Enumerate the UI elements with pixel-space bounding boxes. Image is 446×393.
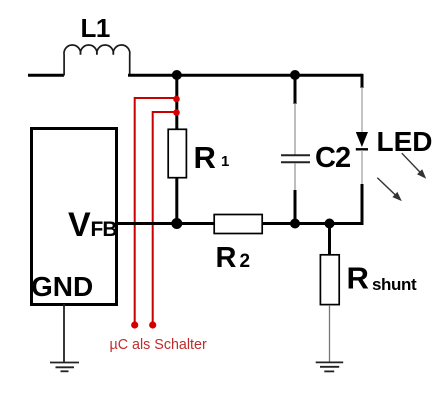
wire: bottom rail (R2 to LED branch) <box>262 222 362 225</box>
node: red dot on R1 top lead (line 1) <box>173 96 180 103</box>
inductor L1 <box>64 45 130 75</box>
wire: LED branch top stub <box>361 74 364 88</box>
wire: top rail right segment <box>128 74 362 77</box>
svg-text:1: 1 <box>221 153 229 170</box>
svg-text:R: R <box>216 242 237 274</box>
resistor Rshunt <box>320 255 339 305</box>
LED diode symbol <box>356 132 368 149</box>
svg-text:C2: C2 <box>315 142 350 174</box>
wire: C2 top thin lead <box>294 103 296 155</box>
node: junction dot top of C2 branch <box>290 70 300 80</box>
svg-text:µC als Schalter: µC als Schalter <box>110 337 207 353</box>
ground symbol left <box>50 363 79 372</box>
svg-text:FB: FB <box>91 218 118 241</box>
wire: VFB pin wire <box>116 222 214 225</box>
resistor R2 <box>214 215 262 234</box>
wire: R1 branch lower (R1 to VFB node) <box>175 178 178 224</box>
Rshunt label <box>347 261 418 296</box>
wire: µC switch line 1 (red) <box>135 98 176 325</box>
wire: LED anode thin lead <box>361 87 363 132</box>
svg-text:shunt: shunt <box>372 275 417 294</box>
node: red dot bottom of line 2 <box>149 321 156 328</box>
svg-text:R: R <box>347 261 369 296</box>
IC box (switching regulator) <box>32 129 117 305</box>
capacitor C2 <box>281 155 310 162</box>
wire: top rail left segment <box>28 74 64 77</box>
LED light arrow 1 <box>402 153 426 179</box>
svg-text:LED: LED <box>377 126 433 157</box>
svg-text:GND: GND <box>31 271 93 302</box>
svg-text:R: R <box>194 140 216 175</box>
wire: R1 branch upper (top rail to R1) <box>175 75 178 129</box>
resistor R1 <box>168 129 186 177</box>
ground symbol right <box>316 362 344 371</box>
R1 label <box>194 140 230 175</box>
node: red dot on R1 top lead (line 2) <box>173 109 180 116</box>
wire: LED cathode thin lead <box>361 150 363 185</box>
R2 label <box>216 242 251 274</box>
wire: Rshunt bottom thin lead <box>329 305 331 362</box>
wire: C2 bottom thin lead <box>294 163 296 191</box>
wire: C2 branch top stub <box>294 75 297 104</box>
wire: LED branch bottom stub <box>361 184 364 225</box>
wire: C2 branch bottom stub <box>294 190 297 224</box>
svg-text:V: V <box>68 206 91 244</box>
wire: GND pin lead <box>63 304 65 362</box>
LED light arrow 2 <box>377 178 402 201</box>
svg-text:L1: L1 <box>81 13 110 43</box>
wire: Rshunt top lead <box>328 224 331 256</box>
svg-text:2: 2 <box>240 251 251 272</box>
node: VFB junction dot <box>171 218 182 229</box>
wire: µC switch line 2 (red) <box>153 112 176 325</box>
pin label VFB <box>68 206 117 244</box>
node: junction dot C2 bottom <box>290 219 300 229</box>
node: junction dot top of R1 branch <box>172 70 182 80</box>
node: red dot bottom of line 1 <box>131 321 138 328</box>
node: junction dot Rshunt top <box>325 219 335 229</box>
